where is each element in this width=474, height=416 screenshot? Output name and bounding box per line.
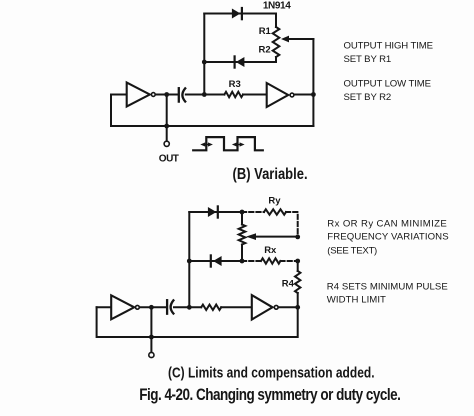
svg-text:R4 SETS MINIMUM PULSE: R4 SETS MINIMUM PULSE: [327, 282, 448, 293]
svg-text:R3: R3: [229, 79, 241, 90]
svg-text:R1: R1: [259, 26, 272, 37]
svg-text:Ry: Ry: [268, 196, 281, 207]
svg-text:(B) Variable.: (B) Variable.: [233, 166, 308, 183]
svg-text:OUTPUT LOW TIME: OUTPUT LOW TIME: [344, 78, 431, 89]
svg-text:(C) Limits and compensation ad: (C) Limits and compensation added.: [168, 364, 375, 380]
svg-text:WIDTH LIMIT: WIDTH LIMIT: [327, 295, 386, 306]
svg-text:(SEE TEXT): (SEE TEXT): [327, 245, 377, 256]
svg-text:OUTPUT HIGH TIME: OUTPUT HIGH TIME: [344, 40, 433, 51]
svg-text:R2: R2: [259, 45, 271, 56]
svg-text:Fig. 4-20. Changing symmetry o: Fig. 4-20. Changing symmetry or duty cyc…: [139, 385, 400, 404]
svg-text:Rx: Rx: [264, 245, 277, 256]
svg-text:SET BY R1: SET BY R1: [344, 54, 392, 65]
svg-text:R4: R4: [282, 279, 295, 290]
svg-text:FREQUENCY VARIATIONS: FREQUENCY VARIATIONS: [327, 231, 448, 242]
svg-text:1N914: 1N914: [263, 1, 291, 12]
svg-text:Rx OR Ry CAN MINIMIZE: Rx OR Ry CAN MINIMIZE: [327, 218, 447, 229]
svg-text:SET BY R2: SET BY R2: [344, 92, 392, 103]
svg-text:OUT: OUT: [159, 153, 179, 164]
